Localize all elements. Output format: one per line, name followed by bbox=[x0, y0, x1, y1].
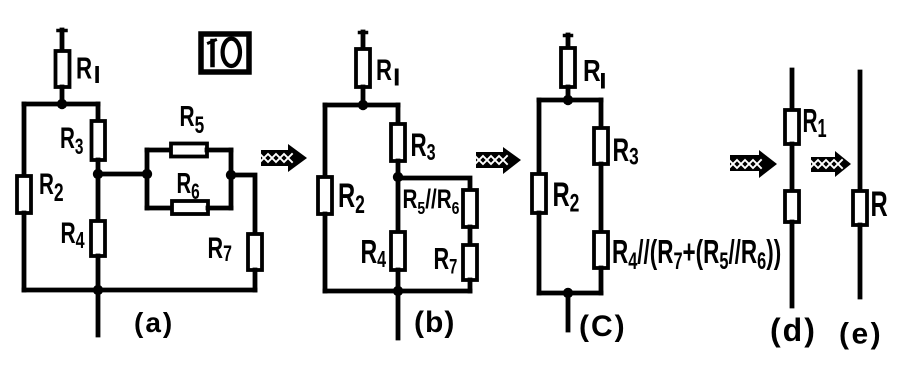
wire: middle node to R4 (a) bbox=[96, 174, 101, 221]
value label R4//(R7+(R5//R6)) (c) bbox=[612, 234, 781, 274]
wire: R1 to top node (b) bbox=[361, 87, 366, 105]
wire: bottom horizontal (b) bbox=[325, 289, 470, 294]
resistor R3 (a) bbox=[92, 121, 106, 160]
wire: top branch right (a) bbox=[207, 148, 231, 153]
node: parallel block left junction (a) bbox=[142, 169, 152, 179]
resistor R3 (b) bbox=[391, 124, 405, 161]
wire: lower segment (e) bbox=[858, 225, 863, 297]
value label R1 (c) bbox=[583, 53, 605, 88]
wire: left vertical upper (b) bbox=[323, 105, 328, 177]
resistor R2 (b) bbox=[318, 177, 332, 214]
wire: top horizontal (b) bbox=[325, 103, 398, 108]
svg-text:R4//(R7+(R5//R6)): R4//(R7+(R5//R6)) bbox=[612, 234, 781, 274]
arrow (d) to (e) bbox=[810, 151, 851, 177]
wire: middle node to R4 (b) bbox=[396, 177, 401, 232]
wire: right vertical to R3 (c) bbox=[599, 100, 604, 128]
node: top junction (b) bbox=[358, 100, 368, 110]
value label R (e) bbox=[871, 186, 888, 225]
label (b) bbox=[414, 306, 455, 339]
value label R5//R6 (b) bbox=[403, 185, 460, 219]
wire: top stub above R1 (b) bbox=[361, 32, 366, 49]
wire: top stub above R1 (a) bbox=[60, 30, 65, 51]
wire: R4 to bottom (b) bbox=[396, 270, 401, 291]
resistor R equivalent (e) bbox=[853, 191, 867, 225]
value label R2 (c) bbox=[553, 176, 580, 217]
resistor R7 (a) bbox=[248, 234, 262, 270]
problem number 10 box bbox=[201, 34, 249, 72]
node: bottom junction (b) bbox=[393, 286, 403, 296]
svg-text:R: R bbox=[376, 53, 392, 87]
wire: top horizontal (c) bbox=[539, 98, 601, 103]
resistor R4//(R7+(R5//R6)) (c) bbox=[594, 232, 608, 268]
wire: R1 to top node (c) bbox=[566, 87, 571, 100]
resistor R4 (b) bbox=[391, 232, 405, 270]
value label R2 (a) bbox=[39, 169, 64, 207]
wire: R1 bottom to top node (a) bbox=[60, 87, 65, 104]
label (a) bbox=[134, 307, 174, 338]
wire: upper segment (d) bbox=[790, 70, 795, 110]
wire: middle node to parallel block (a) bbox=[98, 172, 147, 177]
resistor R7 (b) bbox=[463, 245, 477, 280]
wire: bottom stub (b) bbox=[396, 291, 401, 338]
wire: bottom horizontal (c) bbox=[539, 291, 601, 296]
resistor R2 (a) bbox=[17, 176, 31, 213]
wire: bottom branch left (a) bbox=[147, 206, 172, 211]
wire: R7 to bottom (b) bbox=[468, 280, 473, 291]
wire: bottom branch right (a) bbox=[208, 206, 231, 211]
resistor R1 (b) bbox=[356, 49, 370, 87]
resistor R3 (c) bbox=[594, 128, 608, 164]
value label R3 (c) bbox=[613, 132, 639, 170]
svg-text:(e): (e) bbox=[839, 318, 883, 351]
svg-text:(a): (a) bbox=[134, 307, 174, 338]
svg-text:R: R bbox=[871, 186, 888, 225]
wire: bottom stub (c) bbox=[566, 293, 571, 330]
wire: middle segment (d) bbox=[790, 144, 795, 191]
value label R5 (a) bbox=[180, 101, 205, 139]
label (e) bbox=[839, 318, 883, 351]
wire: top stub above R1 (c) bbox=[566, 35, 571, 48]
resistor R5//R6 equivalent (b) bbox=[463, 190, 477, 227]
resistor R2//(R3+R4//(R7+(R5//R6))) equivalent (d) bbox=[785, 191, 799, 222]
wire: left vertical lower (a) bbox=[22, 213, 27, 290]
wire: bottom horizontal (a) bbox=[24, 288, 255, 293]
wire: R3 to middle node (a) bbox=[96, 160, 101, 174]
resistor R1 (d) bbox=[785, 110, 799, 144]
wire: parallel block left vertical (a) bbox=[145, 150, 150, 208]
arrow (c) to (d) bbox=[729, 150, 777, 178]
resistor R5 (a) bbox=[171, 144, 207, 157]
svg-text:R5//R6: R5//R6 bbox=[403, 185, 460, 219]
value label R3 (a) bbox=[60, 123, 83, 160]
wire: parallel block top branch (a) bbox=[147, 148, 171, 153]
svg-text:(C): (C) bbox=[579, 310, 627, 343]
node: top junction (c) bbox=[563, 95, 573, 105]
wire: between R5//R6 and R7 (b) bbox=[468, 227, 473, 245]
node: parallel block right junction (a) bbox=[226, 170, 236, 180]
svg-text:R: R bbox=[76, 51, 92, 85]
value label R4 (b) bbox=[361, 234, 387, 273]
value label R7 (a) bbox=[208, 230, 232, 266]
wire: left vertical lower (b) bbox=[323, 214, 328, 291]
wire: top horizontal (a) bbox=[24, 102, 98, 107]
wire: R3 to R4eq (c) bbox=[599, 164, 604, 232]
svg-text:R: R bbox=[583, 53, 601, 87]
resistor R2 (c) bbox=[532, 174, 546, 213]
wire: R4eq to bottom (c) bbox=[599, 268, 604, 293]
value label R4 (a) bbox=[61, 218, 85, 254]
arrow (b) to (c) bbox=[475, 147, 521, 174]
value label R1 (a) bbox=[76, 51, 99, 85]
wire: left vertical upper (c) bbox=[537, 100, 542, 174]
value label R3 (b) bbox=[411, 127, 436, 166]
label (c) bbox=[579, 310, 627, 343]
wire: upper segment (e) bbox=[858, 72, 863, 191]
node: bottom junction (a) bbox=[93, 285, 103, 295]
resistor R1 (c) bbox=[561, 48, 575, 87]
node: middle junction (b) bbox=[393, 172, 403, 182]
node: middle junction (a) bbox=[93, 169, 103, 179]
node: top junction (a) bbox=[57, 99, 67, 109]
value label R1 (d) bbox=[803, 102, 827, 143]
wire: left vertical lower (c) bbox=[537, 213, 542, 293]
wire: left vertical upper (a) bbox=[22, 104, 27, 176]
wire: R7 to bottom (a) bbox=[253, 270, 258, 290]
value label R2 (b) bbox=[338, 177, 365, 219]
resistor R4 (a) bbox=[91, 221, 105, 256]
value label R6 (a) bbox=[177, 168, 200, 205]
wire: middle vertical to R3 (a) bbox=[96, 104, 101, 121]
value label R7 (b) bbox=[434, 241, 458, 278]
wire: lower segment (d) bbox=[790, 222, 795, 306]
svg-text:(d): (d) bbox=[770, 312, 817, 348]
label (d) bbox=[770, 312, 817, 348]
node: bottom junction (c) bbox=[563, 288, 573, 298]
wire: right junction to R7 branch (a) bbox=[231, 175, 255, 234]
wire: right vertical to R3 (b) bbox=[396, 105, 401, 124]
wire: R4 to bottom (a) bbox=[96, 256, 101, 290]
wire: R3 to middle node (b) bbox=[396, 161, 401, 177]
wire: bottom stub (a) bbox=[96, 290, 101, 335]
arrow (a) to (b) bbox=[260, 144, 307, 172]
resistor R6 (a) bbox=[172, 201, 208, 214]
wire: middle node to right branch (b) bbox=[398, 178, 470, 190]
value label R1 (b) bbox=[376, 53, 399, 87]
resistor R1 (a) bbox=[56, 51, 70, 87]
wire: parallel block right vertical (a) bbox=[229, 150, 234, 208]
svg-text:(b): (b) bbox=[414, 306, 455, 339]
